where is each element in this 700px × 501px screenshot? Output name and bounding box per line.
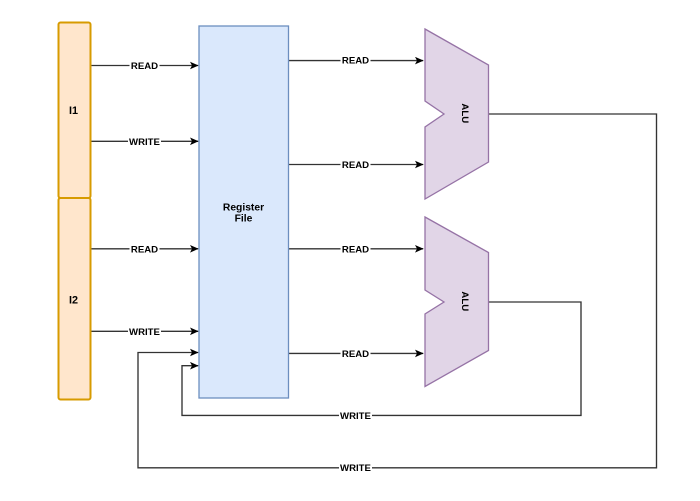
- svg-text:READ: READ: [342, 56, 369, 67]
- wire: ALU1 output feedback (right, down, left, up into Register File): [138, 114, 657, 468]
- label WRITE on ALU1 feedback wire: [339, 462, 372, 474]
- svg-text:WRITE: WRITE: [129, 137, 161, 148]
- svg-text:I1: I1: [69, 105, 78, 117]
- instruction box I1: [59, 23, 91, 199]
- wire: Register File READ to ALU2 input 2: [289, 348, 424, 360]
- svg-text:ALU: ALU: [459, 103, 470, 123]
- wire: Register File READ to ALU1 input 1: [289, 55, 424, 67]
- wire: Register File READ to ALU2 input 1: [289, 243, 424, 255]
- svg-text:READ: READ: [342, 244, 369, 255]
- svg-text:READ: READ: [342, 160, 369, 171]
- svg-text:WRITE: WRITE: [340, 411, 372, 422]
- wire: ALU2 output feedback (right, down, left, up into Register File): [182, 302, 581, 415]
- register file block: [199, 26, 289, 398]
- ALU U1 (top): [425, 29, 489, 199]
- label WRITE on ALU2 feedback wire: [339, 410, 372, 422]
- svg-text:READ: READ: [131, 244, 158, 255]
- instruction box I2: [59, 198, 91, 400]
- wire: I1 READ to Register File: [91, 60, 198, 72]
- ALU U2 (bottom): [425, 217, 489, 387]
- svg-text:Register: Register: [223, 203, 264, 214]
- wire: I1 WRITE to Register File: [91, 136, 198, 148]
- svg-text:READ: READ: [342, 349, 369, 360]
- wire: Register File READ to ALU1 input 2: [289, 159, 424, 171]
- svg-text:I2: I2: [69, 294, 78, 306]
- wire: I2 WRITE to Register File: [91, 326, 198, 338]
- svg-text:WRITE: WRITE: [340, 463, 372, 474]
- svg-text:File: File: [235, 214, 253, 225]
- wire: I2 READ to Register File: [91, 243, 198, 255]
- svg-text:READ: READ: [131, 61, 158, 72]
- svg-text:WRITE: WRITE: [129, 327, 161, 338]
- svg-text:ALU: ALU: [459, 291, 470, 311]
